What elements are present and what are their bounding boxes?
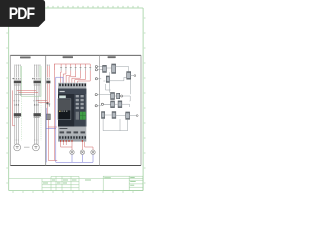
contactor K1 labels — [14, 99, 20, 102]
title block text marks — [43, 177, 136, 185]
FBD block B6 — [111, 93, 115, 100]
motor M1 — [14, 144, 21, 151]
FBD block B4 — [106, 76, 109, 82]
pushbutton S6 — [84, 67, 86, 71]
wire B2 to B3 — [116, 67, 129, 72]
PLC lower strip markings — [59, 128, 85, 133]
label between motors — [24, 146, 30, 149]
pushbutton S5 — [80, 67, 82, 71]
FBD input circle I5 — [95, 94, 111, 96]
pushbutton S7 — [89, 67, 91, 71]
PLC keypad buttons — [76, 95, 84, 109]
coil wiring blue — [46, 108, 56, 162]
thermal overload relay F1 — [14, 81, 21, 84]
overload relay F2b label — [34, 116, 40, 119]
FBD block B8 — [111, 101, 115, 108]
title block top rule — [9, 178, 143, 180]
FBD block B2 — [112, 64, 116, 73]
wire B6 to B7 and to right — [115, 96, 131, 101]
PE dashed wire column 1 — [20, 96, 22, 140]
auxiliary contact symbol — [47, 103, 51, 107]
neutral/earth wire column 1 (green) — [20, 66, 21, 96]
wire B4 to B3 lower input — [103, 77, 126, 81]
title block table B (right) — [103, 176, 143, 190]
neutral/earth wire column 2 (green) — [40, 66, 41, 96]
overload relay F2b — [34, 113, 41, 116]
FBD block B9 — [118, 101, 122, 108]
wire B3 output — [131, 75, 136, 77]
PLC LCD screen — [58, 99, 71, 120]
pushbutton S2 — [65, 67, 67, 71]
wire top labels column 1 — [14, 64, 21, 67]
PLC esc key left of green block — [76, 112, 79, 120]
FBD feedback loop wire — [103, 118, 128, 130]
control circuit breaker Q3 — [47, 78, 50, 80]
PDF badge — [0, 0, 45, 27]
PLC top terminals — [59, 84, 86, 87]
PLC bottom terminals — [59, 136, 86, 138]
PLC green cursor key block — [80, 112, 86, 120]
indicator lamp H1 — [70, 150, 74, 154]
neutral return bus (blue) — [56, 77, 93, 162]
phase wires column 1 — [15, 66, 20, 144]
PLC bottom terminal strip — [58, 135, 86, 141]
wire B1 to B2 — [106, 67, 111, 69]
header label CIRCUITO DE CONTROL — [63, 56, 73, 58]
control overload block F3 — [46, 81, 50, 84]
contactor coil K1 — [46, 114, 50, 120]
indicator lamp H3 — [91, 150, 95, 154]
FBD input circle I3 — [95, 78, 101, 80]
wires around B8 B9 — [115, 101, 131, 107]
coil wiring red — [48, 120, 57, 161]
motor M2 — [33, 144, 40, 151]
PLC lower label strip — [58, 127, 86, 136]
section boxes outer border — [10, 55, 141, 165]
wire labels above motor M1 — [14, 139, 19, 142]
FBD block B3 — [127, 72, 131, 80]
FBD block B11 — [112, 112, 116, 119]
left red riser — [53, 70, 55, 160]
FBD block B1 — [103, 65, 107, 72]
bus drops to pushbuttons — [61, 64, 90, 67]
overload relay F1b — [14, 113, 21, 116]
wire top labels column 2 — [34, 64, 41, 67]
motor M1 label — [16, 146, 19, 148]
FBD input circle I1 — [95, 66, 102, 68]
control tap top labels — [47, 64, 50, 67]
PLC body — [58, 89, 86, 127]
title block table A — [42, 176, 79, 190]
FBD input circle I6 — [95, 105, 101, 107]
PLC output terminal red marks — [60, 140, 83, 142]
interconnect wires between starters — [13, 90, 50, 125]
phase wires column 2 — [35, 66, 40, 144]
control tap wires (red pair) — [47, 66, 49, 114]
PE dashed wire column 2 — [40, 96, 42, 140]
label under relay F1 — [14, 84, 21, 87]
output wires to lamps (red) — [61, 142, 93, 150]
motor M2 label — [34, 146, 37, 148]
wires row B10-B12 — [105, 115, 138, 117]
PLC SIEMENS label — [60, 91, 65, 92]
circuit breaker Q2 — [32, 78, 40, 80]
FBD block B7 with input circle — [117, 93, 123, 98]
FBD block B10 — [102, 112, 105, 119]
thermal overload relay F2 — [34, 81, 41, 84]
svg-text:PDF: PDF — [9, 5, 35, 23]
label under relay F2 — [34, 84, 41, 87]
wire labels above motor M2 — [34, 139, 39, 142]
cascade wiring from pushbuttons to PLC inputs — [60, 71, 90, 83]
pushbutton S1 — [60, 67, 62, 71]
contactor K1 main contacts — [14, 104, 18, 106]
overload relay F1b label — [14, 116, 20, 119]
header label PROGRAMACION — [108, 56, 116, 58]
pushbutton S3 — [70, 67, 72, 71]
control bus (red) — [54, 64, 90, 70]
FBD block B12 — [126, 112, 130, 119]
FBD input circle I4 — [101, 103, 110, 105]
section divider 2 (control/programacion) — [99, 55, 101, 165]
contactor K2 labels — [33, 99, 39, 102]
FBD vertical connector wires — [106, 72, 131, 94]
circuit breaker Q1 — [13, 78, 21, 80]
header label CIRCUITO DE FUERZA — [20, 57, 31, 59]
drawing frame (green border with ticks) — [9, 8, 143, 191]
indicator lamp H2 — [80, 150, 84, 154]
PLC LOGO label — [59, 96, 66, 99]
section divider 1 (fuerza/control) — [45, 55, 47, 165]
FBD input circle I2 — [95, 69, 102, 71]
contactor K2 main contacts — [34, 104, 38, 106]
pushbutton S4 — [75, 67, 77, 71]
PLC U1 (Siemens LOGO!) top terminal strip — [58, 83, 86, 89]
